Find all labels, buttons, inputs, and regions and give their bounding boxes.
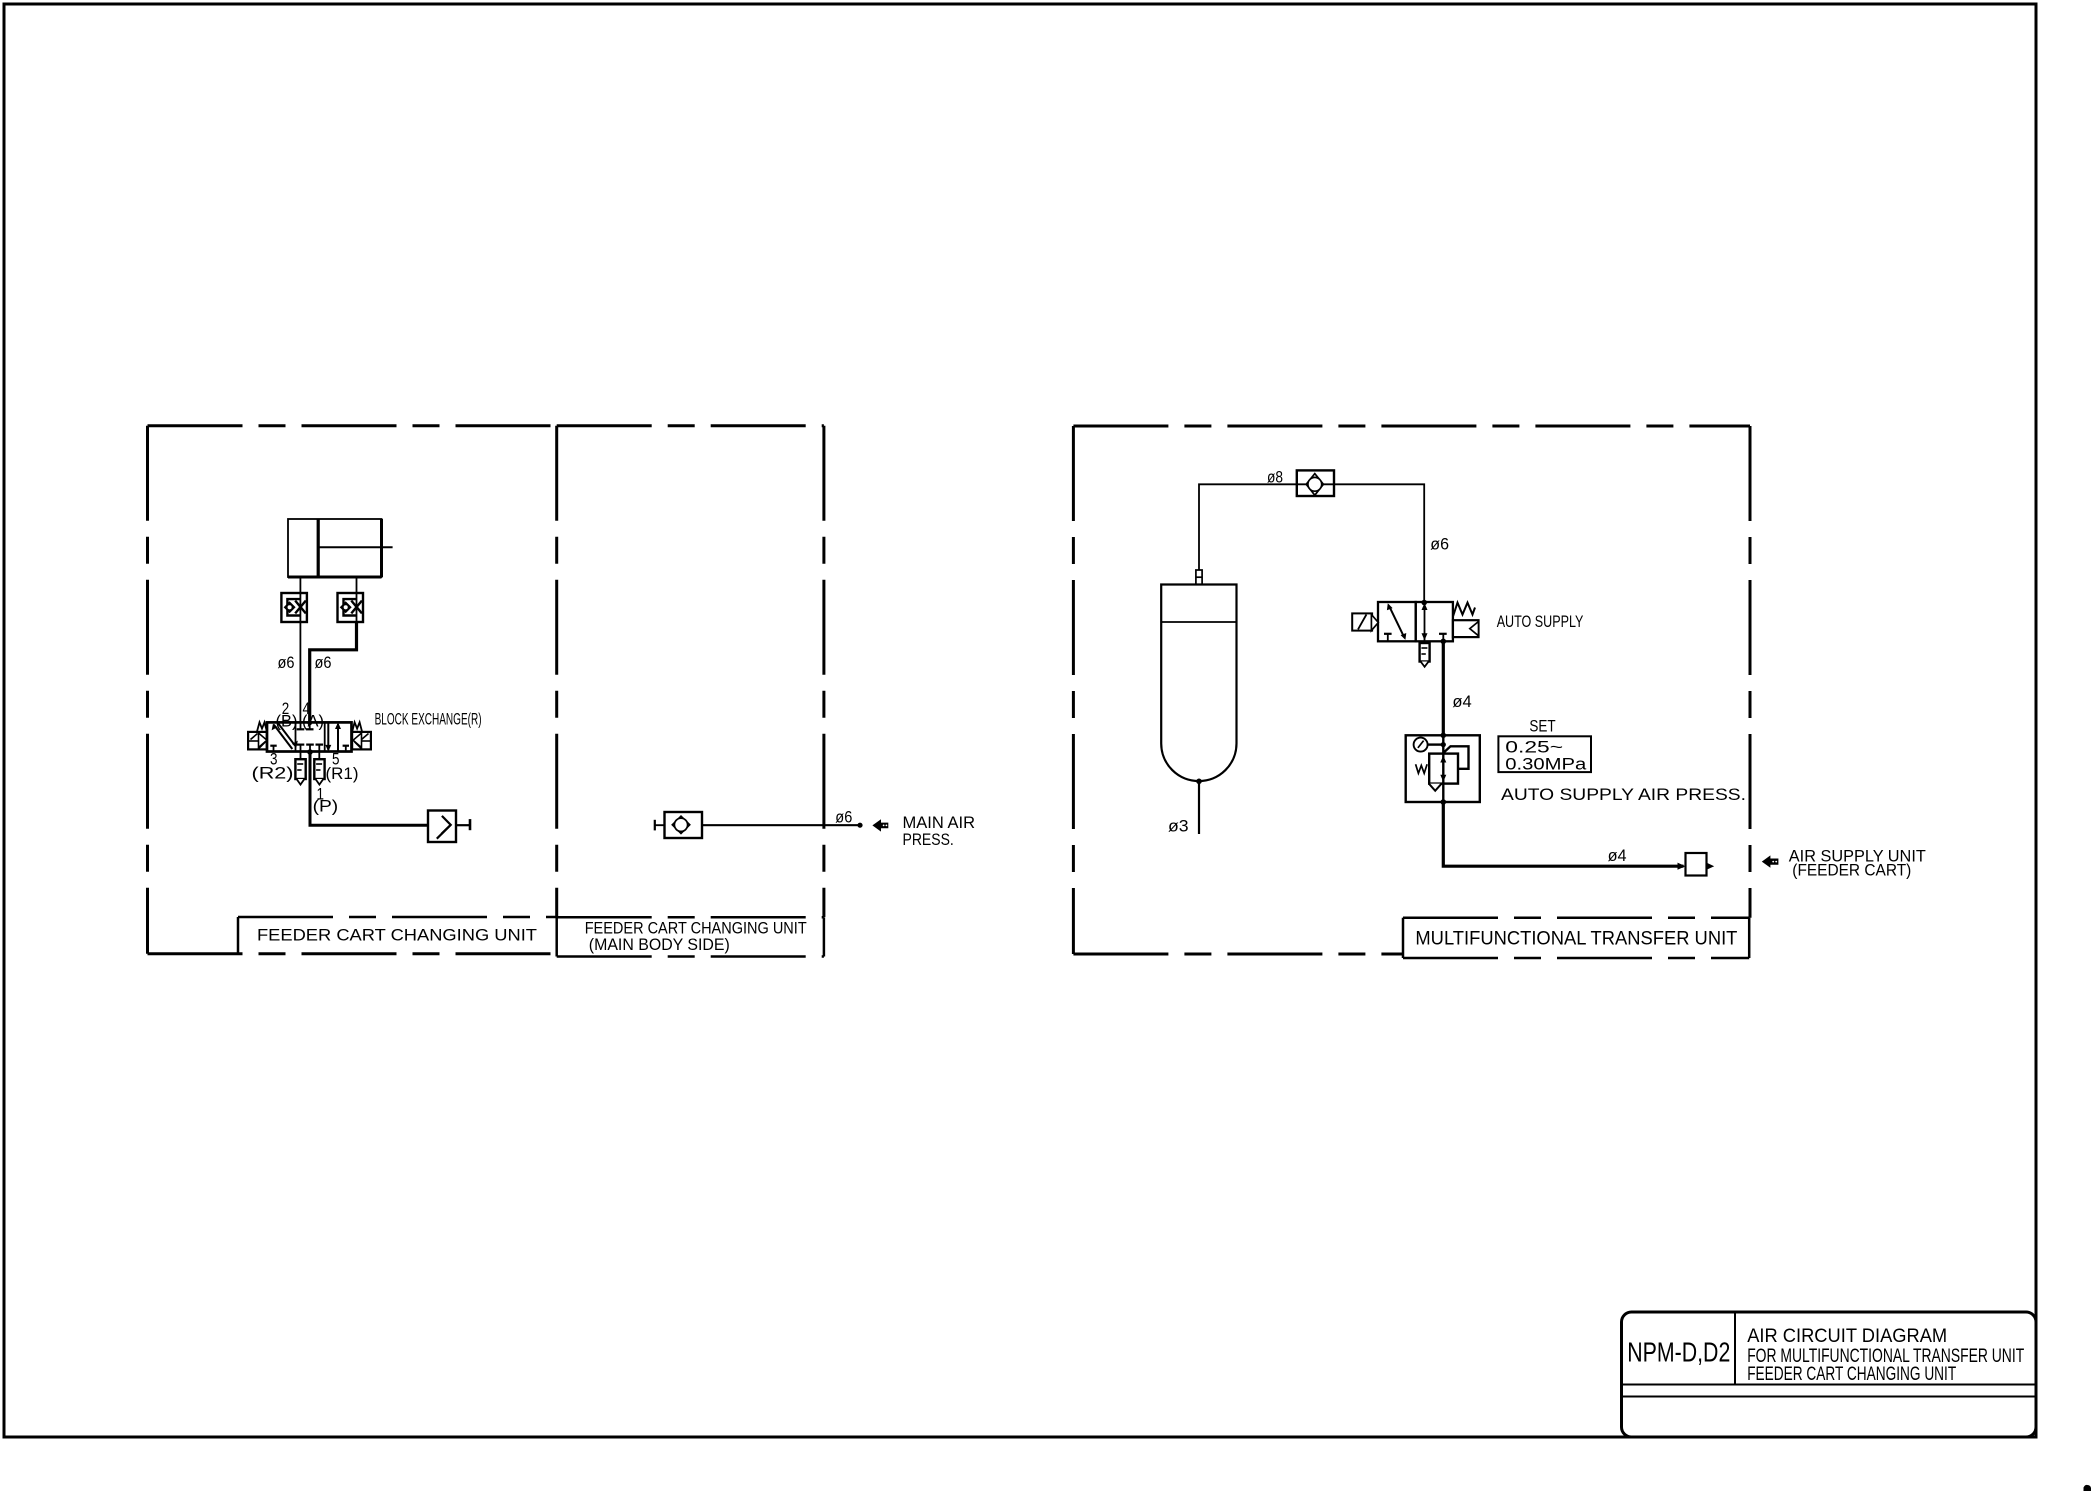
svg-text:AUTO SUPPLY: AUTO SUPPLY <box>1497 612 1584 631</box>
svg-text:ø6: ø6 <box>1430 535 1449 554</box>
node tank bottom dot <box>1196 779 1202 785</box>
svg-text:(P): (P) <box>313 797 339 816</box>
SV1 right cell straight flow arrows <box>325 722 349 751</box>
svg-text:SET: SET <box>1529 717 1555 736</box>
wire CV3 to valve SV2 <box>1334 484 1424 601</box>
svg-text:ø8: ø8 <box>1267 468 1283 487</box>
silencer M2 under port 5 <box>314 752 324 785</box>
check valve CV3 <box>1297 470 1334 496</box>
solenoid valve SV1 body <box>267 722 352 751</box>
SV1 right solenoid with spring <box>352 722 371 749</box>
svg-text:(R1): (R1) <box>326 764 359 783</box>
wire tank drain <box>1198 781 1200 834</box>
page number mark bottom-right <box>2084 1485 2091 1491</box>
cylinder CYL1 <box>288 519 393 577</box>
node regulator bottom dot <box>1441 799 1447 805</box>
regulator REG1 assembly <box>1406 735 1480 802</box>
svg-text:ø6: ø6 <box>278 653 295 672</box>
MULTIFUNCTIONAL TRANSFER UNIT dashed enclosure box3 <box>1073 426 1750 954</box>
main air press arrow <box>872 819 888 831</box>
svg-text:BLOCK EXCHANGE(R): BLOCK EXCHANGE(R) <box>375 710 482 729</box>
node SV2 outlet dot <box>1441 639 1447 645</box>
FEEDER CART CHANGING UNIT (MAIN BODY SIDE) dashed enclosure box2 <box>557 426 824 917</box>
wire cylinder port B to FCV1 <box>299 577 301 593</box>
svg-text:ø4: ø4 <box>1452 692 1471 711</box>
SV2 right pilot box <box>1453 620 1479 637</box>
SV1 left solenoid with spring <box>248 722 267 749</box>
label box 3 MULTIFUNCTIONAL TRANSFER UNIT <box>1403 918 1749 958</box>
title block <box>1622 1312 2037 1437</box>
svg-text:ø6: ø6 <box>835 808 852 827</box>
svg-text:AIR CIRCUIT DIAGRAM: AIR CIRCUIT DIAGRAM <box>1747 1325 1947 1347</box>
svg-text:(B): (B) <box>276 712 298 731</box>
svg-text:ø6: ø6 <box>315 653 332 672</box>
SV2 left solenoid <box>1352 613 1378 630</box>
svg-text:(MAIN BODY SIDE): (MAIN BODY SIDE) <box>589 935 730 954</box>
tank fitting <box>1196 570 1202 585</box>
svg-text:0.30MPa: 0.30MPa <box>1505 754 1587 773</box>
svg-text:MULTIFUNCTIONAL TRANSFER UNIT: MULTIFUNCTIONAL TRANSFER UNIT <box>1415 928 1737 950</box>
svg-text:PRESS.: PRESS. <box>903 830 954 849</box>
svg-text:FEEDER CART CHANGING UNIT: FEEDER CART CHANGING UNIT <box>257 926 537 945</box>
node valve inlet dot <box>1421 600 1427 606</box>
svg-text:ø4: ø4 <box>1608 846 1627 865</box>
check valve CV2 (main body side) <box>655 812 860 838</box>
svg-text:NPM-D,D2: NPM-D,D2 <box>1627 1337 1730 1368</box>
one-way coupler box with arrow <box>428 811 470 843</box>
label box 1 FEEDER CART CHANGING UNIT <box>238 917 557 957</box>
svg-text:(FEEDER CART): (FEEDER CART) <box>1792 861 1911 880</box>
node P junction dot <box>307 749 313 755</box>
FEEDER CART CHANGING UNIT dashed enclosure box1 <box>148 426 557 954</box>
svg-text:(A): (A) <box>302 712 324 731</box>
air tank T1 <box>1161 585 1236 782</box>
SV1 middle cell blocked port stubs <box>297 722 323 751</box>
wire P port down and right <box>310 752 428 826</box>
wire tank to check valve CV3 <box>1199 484 1297 570</box>
wire FCV2 to valve port 4(A) <box>310 622 357 722</box>
SV2 right cell double arrow <box>1422 602 1447 641</box>
wire FCV1 to valve port 2(B) <box>299 622 301 722</box>
solenoid valve SV2 AUTO SUPPLY body <box>1378 602 1453 641</box>
outlet connector square with arrows <box>1678 853 1715 876</box>
silencer M1 under port 3 <box>295 752 305 785</box>
svg-text:ø3: ø3 <box>1168 817 1189 836</box>
wire SV2 to regulator <box>1442 641 1445 735</box>
svg-text:AUTO SUPPLY AIR PRESS.: AUTO SUPPLY AIR PRESS. <box>1501 785 1746 804</box>
SV2 right return spring <box>1453 603 1475 617</box>
svg-text:(R2): (R2) <box>252 764 294 783</box>
air supply unit arrow <box>1762 855 1779 867</box>
flow control valve FCV1 <box>281 593 307 622</box>
label box 2 FEEDER CART CHANGING UNIT (MAIN BODY SIDE) <box>557 917 824 956</box>
wire cylinder port A to FCV2 <box>356 577 358 593</box>
flow control valve FCV2 <box>338 593 364 622</box>
node gauge junction dot <box>1441 742 1446 747</box>
node port 4 dot <box>307 721 312 726</box>
node main air end dot <box>857 823 862 828</box>
SV1 left cell crossed flow arrows <box>270 723 298 751</box>
silencer M3 under SV2 <box>1420 641 1430 667</box>
set value box <box>1498 736 1591 772</box>
svg-text:FEEDER CART CHANGING UNIT: FEEDER CART CHANGING UNIT <box>1747 1363 1956 1385</box>
SV2 left cell diagonal arrow <box>1384 603 1406 641</box>
wire regulator to outlet <box>1443 802 1683 866</box>
node regulator top dot <box>1441 733 1447 739</box>
